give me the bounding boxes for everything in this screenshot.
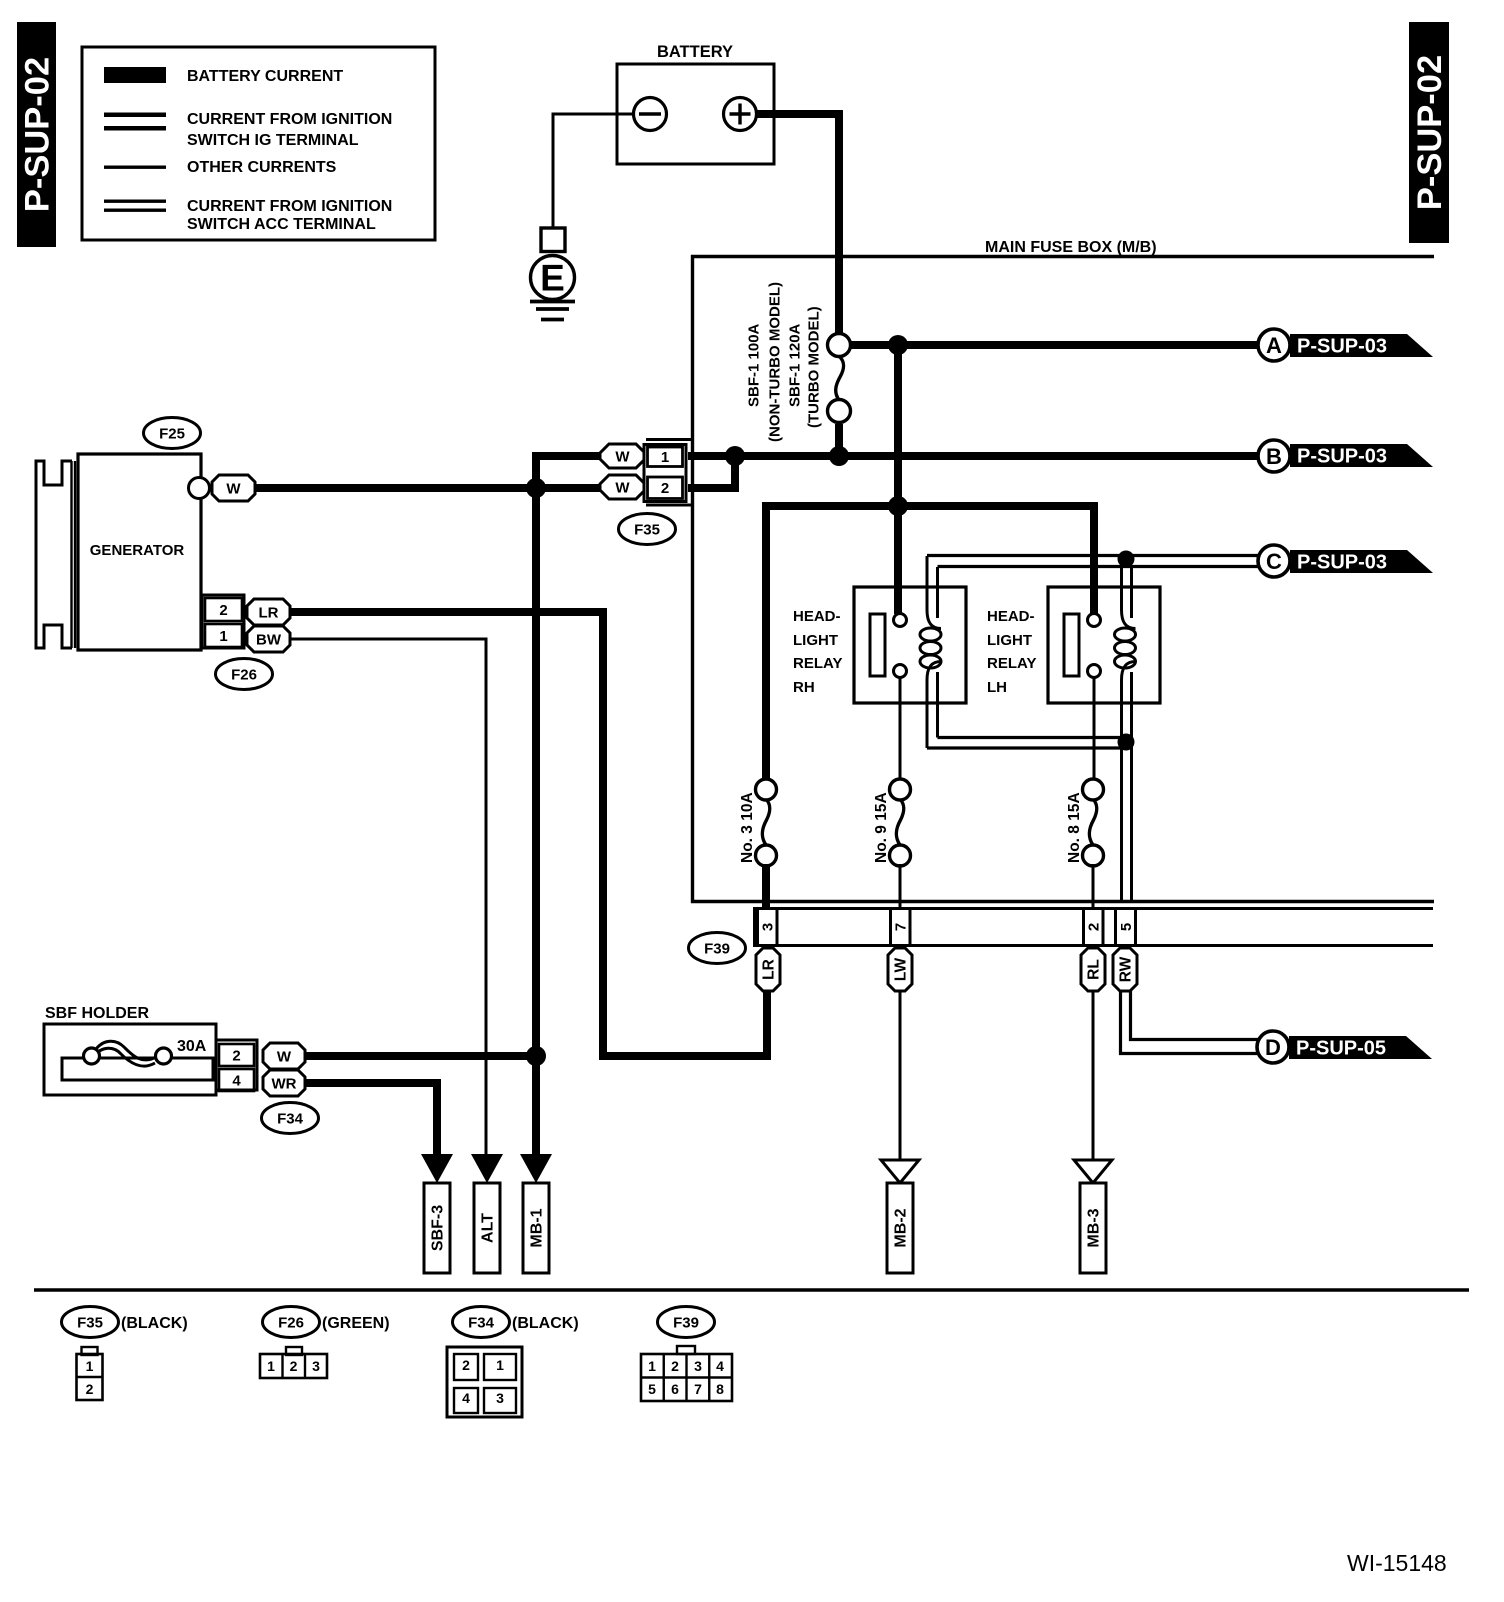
headlight relay RH label: [793, 608, 842, 696]
svg-text:BW: BW: [256, 632, 282, 649]
wire LW to MB-2: [899, 991, 902, 1161]
svg-text:BATTERY: BATTERY: [657, 43, 733, 61]
svg-text:F26: F26: [278, 1315, 304, 1332]
wire relay coil return double line upper: [938, 736, 1132, 739]
generator mount bracket: [36, 461, 72, 648]
wire BW generator to ALT: [290, 639, 486, 1157]
node C circle: [1258, 545, 1290, 577]
wire RL to MB-3: [1092, 991, 1095, 1161]
svg-text:5: 5: [648, 1381, 656, 1397]
svg-text:2: 2: [1086, 923, 1103, 931]
junction dot W net x536: [526, 478, 546, 498]
arrow to MB-2 open: [881, 1160, 919, 1183]
svg-text:MB-3: MB-3: [1086, 1208, 1103, 1247]
generator terminal W circle: [189, 478, 210, 499]
svg-text:4: 4: [716, 1358, 724, 1374]
connector F39 pin 7: [891, 909, 911, 946]
relay LH contact pin top: [1088, 614, 1101, 627]
svg-text:F26: F26: [231, 667, 257, 684]
node D circle: [1257, 1031, 1289, 1063]
wire SBF holder WR to SBF-3: [305, 1083, 437, 1157]
svg-text:F34: F34: [468, 1315, 495, 1332]
svg-text:4: 4: [462, 1390, 470, 1406]
connector label F26 ellipse: [216, 659, 273, 690]
svg-text:1: 1: [661, 449, 669, 466]
wire SBF-1 to node B: [835, 424, 843, 456]
svg-text:SWITCH ACC TERMINAL: SWITCH ACC TERMINAL: [187, 216, 376, 233]
generator pill BW: [247, 626, 290, 652]
wire net A horizontal: [850, 341, 1259, 349]
headlight relay RH box: [854, 587, 966, 703]
wire feed to headlight relay LH: [1090, 506, 1094, 614]
arrow to MB-3 open: [1074, 1160, 1112, 1183]
svg-text:4: 4: [232, 1073, 241, 1090]
battery box: [617, 64, 774, 164]
svg-text:(BLACK): (BLACK): [512, 1315, 579, 1332]
svg-text:(TURBO MODEL): (TURBO MODEL): [806, 306, 823, 428]
battery minus terminal: [634, 98, 667, 131]
wire SBF holder W to MB-1 rail: [305, 1052, 536, 1060]
svg-text:2: 2: [462, 1357, 470, 1373]
connector label F25 ellipse: [144, 418, 201, 449]
connector F35 pill W pin2: [600, 475, 645, 499]
svg-text:No. 8 15A: No. 8 15A: [1066, 792, 1083, 863]
wire pill RL: [1081, 948, 1105, 991]
svg-text:GENERATOR: GENERATOR: [90, 542, 185, 559]
svg-text:LR: LR: [761, 959, 778, 980]
terminal box SBF-3: [424, 1183, 450, 1273]
connector F39 row top edge: [753, 907, 1433, 910]
terminal box MB-3: [1080, 1183, 1106, 1273]
svg-text:2: 2: [232, 1048, 240, 1065]
connector F39 pin 3: [758, 909, 778, 946]
svg-text:SBF-1 120A: SBF-1 120A: [787, 323, 804, 407]
connector label F39 ellipse: [689, 933, 746, 964]
fuse No.8 15A element: [1083, 779, 1104, 866]
battery plus terminal: [724, 98, 757, 131]
svg-text:WI-15148: WI-15148: [1347, 1550, 1447, 1576]
node B banner P-SUP-03: [1290, 444, 1433, 468]
relay RH coil: [920, 556, 941, 748]
svg-text:RH: RH: [793, 679, 815, 696]
headlight relay LH box: [1048, 587, 1160, 703]
SBF holder inner box: [62, 1058, 213, 1080]
generator pill LR: [247, 599, 290, 625]
svg-text:MAIN FUSE BOX (M/B): MAIN FUSE BOX (M/B): [985, 239, 1157, 256]
svg-text:3: 3: [496, 1390, 504, 1406]
svg-text:F25: F25: [159, 426, 185, 443]
junction dot coil return: [1118, 734, 1135, 751]
svg-text:LH: LH: [987, 679, 1007, 696]
connector view F39 ellipse: [658, 1307, 715, 1338]
svg-text:LIGHT: LIGHT: [987, 632, 1032, 649]
terminal box MB-2: [887, 1183, 913, 1273]
junction dot net C: [1118, 551, 1135, 568]
svg-text:3: 3: [312, 1358, 320, 1374]
SBF holder fuse 30A: [84, 1038, 207, 1066]
svg-text:2: 2: [671, 1358, 679, 1374]
wire battery plus thick: [755, 114, 839, 334]
svg-text:RELAY: RELAY: [793, 655, 842, 672]
connector view F34 ellipse: [453, 1307, 510, 1338]
junction dot net A x898: [888, 335, 908, 355]
svg-text:5: 5: [1118, 923, 1135, 931]
fuse No.9 15A element: [890, 779, 911, 866]
svg-text:WR: WR: [272, 1076, 297, 1093]
svg-text:W: W: [615, 480, 630, 497]
wire pill RW: [1113, 948, 1137, 991]
connector F35 pill W pin1: [600, 444, 645, 468]
svg-text:SBF-1 100A: SBF-1 100A: [746, 323, 763, 407]
main fuse box left edge: [691, 255, 694, 903]
node B circle: [1258, 440, 1290, 472]
wire LR generator to F39 pin3 loop: [290, 612, 767, 1056]
svg-text:HEAD-: HEAD-: [793, 608, 841, 625]
svg-text:W: W: [277, 1049, 292, 1066]
svg-text:F39: F39: [704, 941, 730, 958]
svg-text:LR: LR: [259, 605, 279, 622]
generator pill W: [212, 475, 255, 501]
svg-text:7: 7: [893, 923, 910, 931]
svg-text:3: 3: [760, 923, 777, 931]
svg-text:LIGHT: LIGHT: [793, 632, 838, 649]
wire fuse No.9 to F39 pin7: [899, 864, 902, 908]
svg-text:A: A: [1266, 333, 1282, 358]
connector view F26 ellipse: [263, 1307, 320, 1338]
ground circle E: [531, 256, 575, 300]
svg-text:(NON-TURBO MODEL): (NON-TURBO MODEL): [767, 282, 784, 442]
svg-text:1: 1: [267, 1358, 275, 1374]
svg-text:F39: F39: [673, 1315, 699, 1332]
terminal box MB-1: [523, 1183, 549, 1273]
connector view F39 drawing: [641, 1346, 732, 1401]
wire generator W to F35 pill W2: [253, 484, 604, 492]
wire pill LW: [888, 948, 912, 991]
svg-text:LW: LW: [893, 958, 910, 982]
connector F34 pin box: [216, 1040, 257, 1091]
fuse No.3 10A element: [756, 779, 777, 866]
svg-text:RW: RW: [1118, 956, 1135, 982]
svg-text:F34: F34: [277, 1111, 304, 1128]
main fuse box top edge: [691, 255, 1434, 258]
svg-text:(GREEN): (GREEN): [322, 1315, 390, 1332]
svg-text:3: 3: [694, 1358, 702, 1374]
connector label F35 ellipse: [619, 514, 676, 545]
svg-text:30A: 30A: [177, 1038, 207, 1055]
svg-text:6: 6: [671, 1381, 679, 1397]
node D banner P-SUP-05: [1289, 1036, 1432, 1060]
connector F26 pin box: [202, 595, 244, 648]
connector view F35 ellipse: [62, 1307, 119, 1338]
relay LH coil: [1115, 559, 1136, 903]
legend battery current bar: [104, 67, 166, 83]
connector F35 pin box: [644, 440, 692, 506]
wire battery minus to ground: [553, 114, 634, 229]
wire feed to fuse No.3: [766, 506, 770, 781]
svg-text:CURRENT FROM IGNITION: CURRENT FROM IGNITION: [187, 198, 392, 215]
junction dot net B x839: [829, 446, 849, 466]
relay RH contact pin bottom: [894, 665, 907, 678]
wire relay RH output to fuse No.9: [899, 677, 902, 781]
connector view F35 drawing: [77, 1347, 103, 1400]
svg-text:No. 9 15A: No. 9 15A: [873, 792, 890, 863]
junction dot SBF holder W x536: [526, 1046, 546, 1066]
svg-text:OTHER CURRENTS: OTHER CURRENTS: [187, 159, 337, 176]
svg-text:P-SUP-03: P-SUP-03: [1297, 552, 1387, 574]
wire fuse No.8 to F39 pin2: [1092, 864, 1095, 908]
wire net C double line lower: [938, 565, 1260, 568]
connector label F34 ellipse: [262, 1103, 319, 1134]
ground terminal square: [541, 228, 565, 252]
junction dot relay feed: [888, 496, 908, 516]
svg-text:ALT: ALT: [480, 1213, 497, 1243]
relay LH contact bar: [1064, 614, 1079, 676]
separator line: [34, 1288, 1469, 1292]
svg-text:F35: F35: [77, 1315, 103, 1332]
svg-text:RL: RL: [1086, 959, 1103, 980]
node A banner P-SUP-03: [1290, 334, 1433, 358]
wire relay LH output to fuse No.8: [1093, 677, 1096, 781]
svg-text:7: 7: [694, 1381, 702, 1397]
relay LH contact pin bottom: [1088, 665, 1101, 678]
relay RH contact bar: [870, 614, 885, 676]
svg-text:1: 1: [496, 1357, 504, 1373]
svg-text:2: 2: [290, 1358, 298, 1374]
node A circle: [1258, 329, 1290, 361]
wire fuse No.3 to F39 pin3: [762, 864, 770, 908]
svg-text:MB-2: MB-2: [893, 1208, 910, 1247]
svg-text:F35: F35: [634, 522, 660, 539]
page banner right P-SUP-02: [1409, 22, 1449, 243]
wire relay feed horizontal: [766, 502, 1094, 510]
svg-text:BATTERY CURRENT: BATTERY CURRENT: [187, 68, 343, 85]
svg-text:1: 1: [219, 628, 227, 645]
svg-text:C: C: [1266, 549, 1282, 574]
svg-text:W: W: [615, 449, 630, 466]
svg-text:MB-1: MB-1: [529, 1208, 546, 1247]
junction dot net B x735: [725, 446, 745, 466]
wire net B horizontal: [688, 452, 1259, 460]
arrow to MB-1: [520, 1154, 552, 1183]
svg-text:P-SUP-03: P-SUP-03: [1297, 336, 1387, 358]
svg-text:E: E: [540, 258, 565, 299]
wire pill LR: [756, 948, 780, 991]
headlight relay LH label: [987, 608, 1036, 696]
SBF holder box: [44, 1024, 216, 1095]
SBF holder pill W: [263, 1043, 305, 1069]
svg-text:P-SUP-05: P-SUP-05: [1296, 1038, 1386, 1060]
svg-text:8: 8: [716, 1381, 724, 1397]
arrow to SBF-3: [421, 1154, 453, 1183]
connector view F26 drawing: [260, 1347, 327, 1378]
relay RH contact pin top: [894, 614, 907, 627]
connector F39 pin 5: [1116, 909, 1136, 946]
connector view F34 drawing: [447, 1347, 522, 1417]
generator box: [78, 454, 201, 650]
svg-text:SBF-3: SBF-3: [430, 1205, 447, 1251]
svg-text:W: W: [226, 481, 241, 498]
wire RW to node D double line: [1121, 991, 1260, 1054]
wire relay coil return double line lower: [927, 746, 1122, 749]
legend box: [82, 47, 435, 240]
svg-text:P-SUP-02: P-SUP-02: [1411, 55, 1449, 210]
svg-text:2: 2: [86, 1381, 94, 1397]
svg-text:2: 2: [661, 480, 669, 497]
wire net C double line upper: [927, 554, 1259, 557]
connector F39 row bottom edge: [753, 944, 1433, 947]
page banner left P-SUP-02: [17, 22, 57, 247]
main fuse box bottom edge: [691, 900, 1434, 903]
svg-text:SWITCH IG TERMINAL: SWITCH IG TERMINAL: [187, 132, 359, 149]
node C banner P-SUP-03: [1290, 550, 1433, 574]
legend IG double line: [104, 113, 166, 118]
wire F35 pill W1 to MB-1 rail: [536, 452, 604, 460]
svg-text:SBF HOLDER: SBF HOLDER: [45, 1005, 149, 1022]
svg-text:D: D: [1265, 1035, 1281, 1060]
svg-text:1: 1: [648, 1358, 656, 1374]
svg-text:HEAD-: HEAD-: [987, 608, 1035, 625]
fuse SBF-1 element: [828, 334, 851, 423]
connector F39 pin 2: [1084, 909, 1104, 946]
svg-text:RELAY: RELAY: [987, 655, 1036, 672]
svg-text:CURRENT FROM IGNITION: CURRENT FROM IGNITION: [187, 111, 392, 128]
svg-text:B: B: [1266, 444, 1282, 469]
ground symbol lines: [530, 300, 575, 304]
connector F39 row left edge: [753, 907, 756, 947]
terminal box ALT: [474, 1183, 500, 1273]
svg-text:No. 3 10A: No. 3 10A: [739, 792, 756, 863]
arrow to ALT: [471, 1154, 503, 1183]
svg-text:P-SUP-03: P-SUP-03: [1297, 446, 1387, 468]
svg-text:1: 1: [86, 1358, 94, 1374]
SBF holder pill WR: [263, 1070, 305, 1096]
wire battery feed vertical x898: [894, 341, 902, 614]
wire F35 pin2 to net B: [688, 456, 735, 488]
wire MB-1 rail vertical: [532, 452, 540, 1157]
legend ACC double line: [104, 200, 166, 203]
generator body lines: [70, 461, 72, 648]
svg-text:(BLACK): (BLACK): [121, 1315, 188, 1332]
svg-text:P-SUP-02: P-SUP-02: [19, 57, 57, 212]
legend other currents line: [104, 166, 166, 169]
svg-text:2: 2: [219, 602, 227, 619]
